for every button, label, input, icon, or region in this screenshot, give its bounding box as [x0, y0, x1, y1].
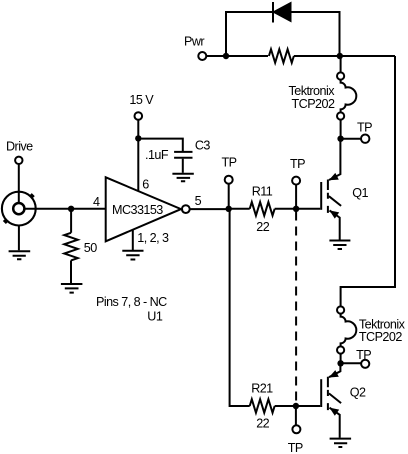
wire top rail left segment	[226, 55, 268, 57]
resistor R11	[250, 202, 275, 216]
node junction input	[68, 206, 74, 212]
wire top rail to right rail	[340, 55, 396, 57]
op-amp U1 MC33153 driver triangle	[106, 177, 181, 241]
wire node to TP	[295, 406, 297, 425]
node junction R11 left	[226, 206, 232, 212]
resistor 50 lead 2	[70, 260, 72, 283]
terminal TP (Q2 collector)	[361, 360, 369, 368]
node junction collector Q2	[337, 360, 343, 366]
current probe TCP202 #2 bottom circle	[337, 346, 344, 353]
transistor Q2 emitter lead	[330, 408, 340, 438]
resistor 50	[64, 233, 78, 261]
transistor Q1 emitter lead	[330, 211, 340, 240]
transistor Q2 body diagonal	[329, 393, 341, 403]
node junction collector Q1	[337, 136, 343, 142]
svg-text:22: 22	[256, 417, 269, 431]
ground (50 ohm)	[61, 284, 83, 293]
resistor (snubber, top rail)	[269, 49, 294, 63]
connector BNC outer	[2, 192, 36, 226]
resistor R11 lead 2	[275, 208, 296, 210]
terminal TP (Q1 collector)	[361, 135, 369, 143]
wire node to TP	[341, 138, 361, 140]
wire node to Q1 gate	[296, 208, 320, 210]
node junction 15V	[135, 135, 141, 141]
wire pin 1,2,3 to ground	[132, 230, 134, 250]
svg-text:MC33153: MC33153	[112, 203, 163, 217]
svg-text:TP: TP	[356, 348, 371, 362]
wire node to TP	[341, 362, 361, 364]
wire node to Q2 gate	[296, 405, 320, 407]
wire BNC to node	[24, 208, 105, 210]
current probe TCP202 #1 top circle	[337, 72, 344, 79]
transistor Q2 channel dashes	[327, 377, 329, 410]
wire 15V to pin 6	[137, 120, 139, 192]
transistor Q2 emitter arrow	[329, 408, 339, 416]
svg-text:R11: R11	[252, 185, 273, 199]
transistor Q1 collector lead	[329, 139, 340, 180]
terminal 15 V	[135, 112, 143, 120]
wire probe 2 to node	[340, 354, 342, 364]
wire output to node	[190, 208, 229, 210]
wire diode loop	[226, 12, 340, 56]
ground (U1 pins 1,2,3)	[122, 251, 143, 260]
diode cathode bar	[272, 2, 274, 23]
svg-text:U1: U1	[147, 310, 163, 324]
svg-text:Q2: Q2	[350, 386, 366, 400]
terminal Drive	[15, 157, 22, 164]
op-amp U1 output bubble	[182, 205, 190, 213]
resistor 50 lead	[70, 209, 72, 233]
node junction R11 right	[293, 206, 299, 212]
terminal TP (Q2 gate)	[292, 425, 300, 433]
connector BNC bayonet lugs	[4, 194, 34, 223]
terminal TP (driver out)	[225, 176, 233, 184]
ground (Q1 emitter)	[329, 241, 350, 250]
svg-text:TCP202: TCP202	[292, 97, 335, 111]
wire C3 to ground	[182, 159, 184, 173]
node junction top right	[337, 53, 343, 59]
current probe TCP202 #2 top circle	[337, 306, 344, 313]
wire top rail right segment	[294, 55, 340, 57]
svg-text:Drive: Drive	[6, 140, 33, 154]
svg-text:Pwr: Pwr	[184, 35, 204, 49]
svg-text:TP: TP	[290, 157, 305, 171]
transistor Q1 collector arrow	[329, 173, 339, 180]
wire TP to node	[228, 184, 230, 209]
transistor Q2 gate bar	[320, 379, 322, 407]
svg-text:.1uF: .1uF	[145, 148, 169, 162]
svg-text:Pins 7, 8 - NC: Pins 7, 8 - NC	[96, 295, 167, 309]
ground (Q2 emitter)	[330, 439, 352, 447]
connector BNC inner	[13, 203, 24, 214]
wire node to probe 1	[340, 56, 342, 72]
current probe TCP202 #1 bottom circle	[337, 112, 344, 119]
resistor R21 lead 2	[275, 405, 296, 407]
current probe TCP202 #1 loop	[341, 80, 357, 113]
transistor Q1 gate bar	[320, 182, 322, 210]
svg-text:1, 2, 3: 1, 2, 3	[137, 231, 169, 245]
transistor Q1 emitter arrow	[329, 210, 339, 218]
node junction Pwr	[223, 53, 229, 59]
terminal TP (Q1 gate)	[292, 177, 300, 185]
wire TP to node	[295, 185, 297, 209]
current probe TCP202 #2 loop	[341, 314, 357, 347]
ground (C3)	[172, 174, 193, 182]
svg-text:4: 4	[93, 195, 100, 209]
svg-text:50: 50	[84, 241, 97, 255]
transistor Q1 body diagonal	[329, 196, 341, 206]
wire Pwr to node	[206, 55, 226, 57]
ground (BNC)	[9, 251, 31, 259]
svg-text:15 V: 15 V	[129, 93, 154, 107]
svg-text:TP: TP	[288, 441, 303, 454]
svg-text:TP: TP	[222, 156, 237, 170]
svg-text:22: 22	[256, 220, 269, 234]
capacitor C3	[174, 152, 192, 158]
transistor Q2 collector arrow	[329, 370, 339, 377]
node junction R21 right	[293, 403, 299, 409]
transistor Q2 collector lead	[329, 363, 340, 377]
wire BNC shell to ground	[18, 226, 20, 251]
wire right rail	[341, 56, 395, 306]
svg-text:TP: TP	[357, 121, 372, 135]
wire probe 1 to node	[340, 120, 342, 139]
svg-text:C3: C3	[195, 139, 211, 153]
transistor Q1 channel dashes	[327, 180, 329, 213]
svg-text:Q1: Q1	[352, 186, 368, 200]
wire dashed phase link	[295, 212, 297, 403]
svg-text:TCP202: TCP202	[359, 330, 402, 344]
svg-text:6: 6	[142, 177, 149, 191]
wire node to C3	[138, 139, 183, 151]
terminal Pwr	[198, 52, 206, 60]
svg-text:R21: R21	[251, 382, 273, 396]
resistor R11 lead	[229, 208, 250, 210]
resistor R21	[250, 399, 275, 413]
wire driver node down to R21	[230, 209, 250, 406]
wire Drive to BNC	[18, 164, 20, 203]
svg-text:5: 5	[195, 194, 202, 208]
diode	[274, 3, 291, 21]
